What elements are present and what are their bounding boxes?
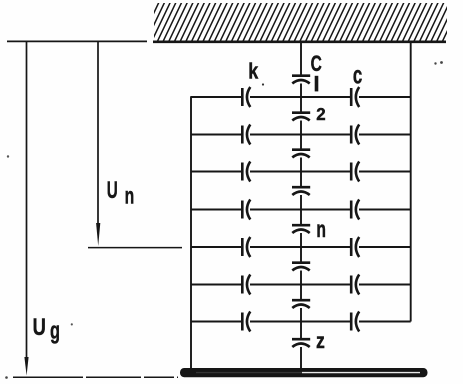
capacitor c2 (right, rung 2) (351, 125, 359, 145)
center chain wire segments (300, 43, 302, 76)
svg-text:U: U (33, 314, 46, 341)
rung 4 (191, 209, 411, 211)
svg-text:c: c (353, 61, 362, 89)
capacitor k2 (left, rung 2) (242, 125, 250, 145)
capacitor C1 (chain) (292, 76, 310, 84)
capacitor Cn (chain) (292, 225, 310, 233)
capacitor Cz (chain) (292, 339, 310, 347)
dimension line Ug (26, 42, 28, 358)
scan specks top right (434, 62, 436, 64)
ceiling bottom edge (153, 40, 446, 43)
capacitor C2 (chain) (292, 113, 310, 121)
scan speck bottom left (5, 376, 8, 379)
capacitor c7 (right, rung 7) (351, 312, 359, 332)
capacitor C4 (chain) (292, 187, 310, 195)
arrow Un (96, 223, 100, 246)
svg-text:g: g (50, 318, 60, 345)
capacitor c6 (right, rung 6) (351, 275, 359, 295)
rung 5 (191, 246, 411, 248)
capacitor k4 (left, rung 4) (242, 200, 250, 220)
rung 1 (191, 96, 411, 98)
svg-text:U: U (107, 177, 118, 204)
svg-text:k: k (248, 59, 259, 84)
capacitor c3 (right, rung 3) (351, 162, 359, 182)
rung 7 (191, 321, 411, 323)
capacitor k5 (left, rung 5) (242, 237, 250, 257)
scan speck left edge (7, 155, 9, 157)
svg-text:z: z (316, 328, 325, 353)
svg-text:2: 2 (316, 104, 325, 124)
scan speck near Ug (71, 323, 73, 325)
hatched ceiling (earth/wall) (140, 0, 463, 42)
top reference line (7, 40, 147, 42)
ground pedestal (180, 368, 428, 377)
capacitor C3 (chain) (292, 150, 310, 158)
left bus wire (190, 96, 192, 368)
arrow Ug (24, 357, 28, 376)
rung 3 (191, 171, 411, 173)
rung 6 (191, 284, 411, 286)
capacitor c4 (right, rung 4) (351, 200, 359, 220)
rung 2 (191, 134, 411, 136)
capacitor C6 (chain) (292, 263, 310, 271)
svg-text:n: n (125, 183, 135, 209)
capacitor k1 (left, rung 1) (242, 87, 250, 107)
capacitor c5 (right, rung 5) (351, 237, 359, 257)
svg-text:n: n (316, 216, 326, 242)
dimension line Un (97, 42, 99, 224)
right bus wire (410, 43, 412, 322)
bottom reference line (13, 376, 178, 378)
capacitor k6 (left, rung 6) (242, 275, 250, 295)
leader line at node n (88, 247, 182, 249)
svg-text:C: C (311, 51, 322, 76)
capacitor k3 (left, rung 3) (242, 162, 250, 182)
label subscript 1 of C (315, 76, 319, 92)
scan speck near k (262, 83, 264, 85)
capacitor k7 (left, rung 7) (242, 312, 250, 332)
capacitor c1 (right, rung 1) (351, 87, 359, 107)
capacitor C7 (chain) (292, 300, 310, 308)
